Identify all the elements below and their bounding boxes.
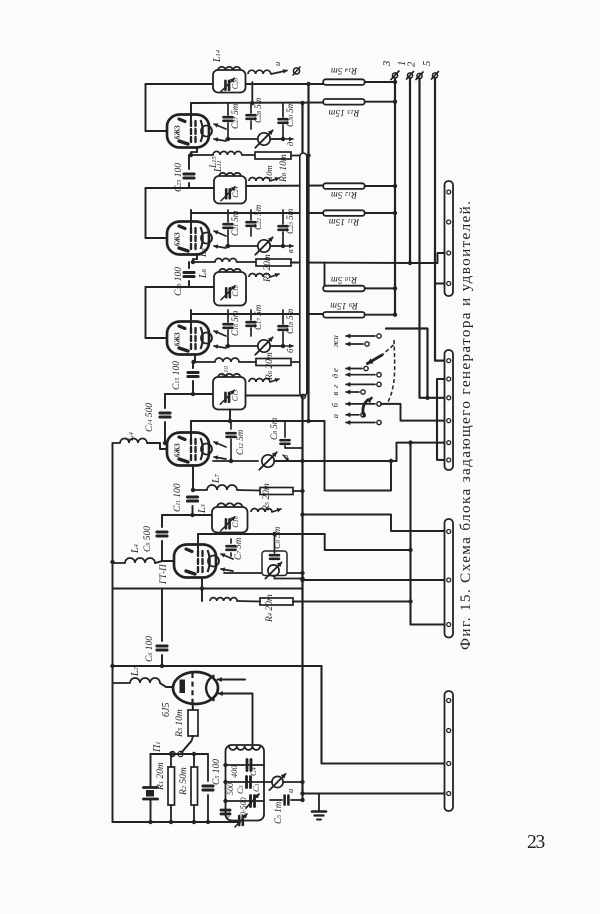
switch contact е bbox=[330, 366, 368, 372]
tube V4 bbox=[167, 433, 212, 466]
label L15 bbox=[209, 155, 219, 169]
svg-text:L10: L10 bbox=[221, 365, 231, 379]
switch contact д bbox=[330, 373, 381, 379]
wire coupling arrow stage4 bbox=[270, 378, 279, 382]
wire grid tank feed V1 bbox=[146, 83, 214, 85]
node и VFO bbox=[285, 789, 295, 793]
tube V6 6J5 bbox=[173, 672, 218, 704]
wire grid lead V1 bbox=[146, 130, 168, 132]
wire coupling arrow stage3 bbox=[270, 273, 279, 277]
label capC V2 bbox=[285, 208, 295, 234]
resistor R5 20т bbox=[237, 488, 305, 495]
label R9 bbox=[330, 300, 359, 310]
svg-text:ж: ж bbox=[330, 340, 340, 348]
bus terminal1 bbox=[409, 78, 411, 263]
bus A vertical x302 bbox=[301, 103, 303, 793]
wire output stage1 bbox=[271, 70, 287, 75]
wire top-cap feed y213 V2 bbox=[191, 212, 325, 214]
label C2 bbox=[222, 809, 232, 818]
wire L4 to rail bbox=[113, 442, 121, 444]
label capB V3 bbox=[253, 304, 263, 330]
svg-text:С14 500: С14 500 bbox=[145, 403, 155, 432]
wire feed y534 V5 bbox=[198, 532, 325, 536]
terminal 3 bbox=[382, 61, 399, 84]
label П1 bbox=[152, 742, 163, 753]
svg-text:R9 15т: R9 15т bbox=[330, 300, 359, 310]
capacitor C9 500 bbox=[157, 515, 167, 561]
svg-text:С5 100: С5 100 bbox=[212, 759, 222, 785]
svg-text:б: б bbox=[285, 348, 295, 353]
wire arrows row V5 bbox=[224, 572, 262, 574]
label capA V2 bbox=[230, 210, 240, 236]
label capC V1 bbox=[285, 101, 295, 127]
wire tank bottom stub stage4 bbox=[228, 410, 232, 424]
svg-text:10т: 10т bbox=[264, 165, 274, 180]
wire feed y421 V4 bbox=[191, 419, 325, 423]
svg-text:Фиг. 15. Схема блока задающего: Фиг. 15. Схема блока задающего генератор… bbox=[457, 200, 474, 650]
label R8 10т bbox=[264, 154, 289, 183]
label C6 100 bbox=[145, 636, 155, 662]
label C7 5т bbox=[233, 537, 243, 560]
wire anode arrows V1 bbox=[214, 124, 226, 142]
wire grid-return rail stage2 bbox=[145, 188, 147, 238]
wire plate feed y186 stage2 bbox=[246, 185, 325, 188]
inductor coupling coil stage3 bbox=[249, 274, 270, 278]
svg-text:R13 15т: R13 15т bbox=[328, 107, 360, 117]
label R5 20т bbox=[262, 483, 272, 512]
tank L6 C13 bbox=[213, 374, 246, 410]
wire cathode V1 bbox=[189, 147, 197, 157]
node letter a V4 bbox=[280, 455, 290, 461]
page number 23 bbox=[527, 832, 545, 853]
ground bbox=[312, 794, 326, 820]
svg-text:С16 5т: С16 5т bbox=[230, 310, 240, 336]
label 400 bbox=[229, 765, 239, 779]
label L2 bbox=[130, 666, 141, 677]
wire strip3 feed c bbox=[408, 443, 444, 625]
wire grid-return rail stage3 bbox=[145, 287, 147, 338]
terminal 2 bbox=[407, 61, 424, 80]
svg-text:С20 100: С20 100 bbox=[174, 267, 184, 296]
svg-text:R3 10т: R3 10т bbox=[175, 709, 185, 738]
caption Фиг. 15 bbox=[457, 200, 474, 650]
svg-text:400: 400 bbox=[229, 765, 239, 779]
svg-text:6ЖЗ: 6ЖЗ bbox=[175, 125, 182, 139]
wire coupling node stage2-3 bbox=[146, 286, 215, 288]
terminal strip 4 bbox=[445, 691, 454, 811]
wire coupling node stage3-4 bbox=[165, 393, 214, 395]
tube V3 bbox=[167, 322, 212, 355]
wire feed drop V4 bbox=[325, 421, 394, 491]
inductor L15 bbox=[213, 151, 242, 155]
svg-text:5: 5 bbox=[422, 61, 433, 66]
wire bus A bottom bbox=[302, 782, 304, 800]
svg-text:С9 5т: С9 5т bbox=[272, 526, 282, 549]
wire grid-return rail stage1 bbox=[145, 84, 147, 131]
wire coupling arrow stage2 bbox=[270, 177, 279, 181]
wire cathode bus y588 bbox=[113, 588, 303, 590]
capacitor C15 100 coupling bbox=[188, 362, 198, 396]
bus B vertical x308 bbox=[307, 84, 309, 421]
wire R3 to switch bbox=[192, 736, 194, 741]
svg-text:R8 10т: R8 10т bbox=[279, 154, 289, 183]
wire cathode V2 bbox=[191, 254, 197, 264]
svg-text:С30 5т: С30 5т bbox=[285, 101, 295, 127]
wire grid cap stub V3 bbox=[190, 310, 192, 331]
switch П1 bbox=[170, 742, 191, 757]
wire VFO rail1 bbox=[223, 763, 264, 767]
meter VFO bbox=[264, 774, 305, 790]
label L4 stage4 bbox=[125, 431, 136, 442]
capacitor C5 1т bbox=[270, 796, 305, 805]
wire drop x321 to strip4 bbox=[322, 666, 446, 764]
bus terminal2 bbox=[420, 79, 445, 398]
wire strip4 feed b bbox=[322, 763, 445, 765]
label R10 bbox=[331, 274, 358, 284]
switch arm bbox=[363, 340, 395, 417]
resistor R9 bbox=[323, 312, 397, 318]
capacitor C23 5т bbox=[279, 210, 288, 246]
wire strip2 feed c bbox=[397, 440, 445, 461]
bus terminal5 bbox=[434, 78, 436, 284]
wire cathode V3 bbox=[191, 355, 215, 364]
resistor R10 bbox=[323, 286, 397, 292]
label capC V3 bbox=[285, 308, 295, 334]
terminal strip 2 bbox=[445, 350, 454, 470]
label capB V1 bbox=[253, 97, 263, 123]
wire cathode V5 bbox=[200, 578, 204, 601]
svg-text:R2 50т: R2 50т bbox=[179, 767, 189, 796]
wire long y666 bbox=[113, 665, 322, 667]
svg-text:С9 500: С9 500 bbox=[143, 526, 153, 552]
wire strip1 feed b bbox=[435, 283, 445, 285]
svg-text:б: б bbox=[330, 402, 340, 407]
capacitor C18 5т bbox=[279, 310, 288, 346]
label R13 bbox=[328, 107, 360, 117]
wire osc top rail bbox=[151, 752, 209, 756]
svg-text:С17 5т: С17 5т bbox=[253, 304, 263, 330]
wire row V4 bbox=[193, 489, 208, 491]
svg-text:R1 20т: R1 20т bbox=[156, 762, 166, 791]
inductor L1 bbox=[229, 746, 260, 750]
wire L4b to grid V5 bbox=[155, 561, 174, 563]
resistor R4 20т bbox=[237, 598, 411, 605]
wire C9box out bbox=[275, 571, 305, 581]
label C5 100 bbox=[212, 759, 222, 785]
capacitor C28 5т bbox=[247, 103, 256, 129]
wire row V1 bbox=[191, 154, 213, 156]
tank L3 C10 bbox=[212, 503, 248, 532]
svg-text:С12 5т: С12 5т bbox=[235, 429, 245, 455]
wire common grid rail bbox=[110, 443, 114, 822]
wire strip3 feed b bbox=[300, 578, 444, 582]
label C14 500 bbox=[145, 403, 155, 432]
tube V2 bbox=[167, 222, 212, 255]
label 500 bbox=[226, 783, 235, 795]
svg-text:6ЖЗ: 6ЖЗ bbox=[175, 332, 182, 346]
svg-text:R12 5т: R12 5т bbox=[331, 189, 358, 199]
capacitor C11 100 coupling bbox=[188, 465, 198, 517]
inductor L2 bbox=[130, 678, 160, 683]
terminal 5 bbox=[422, 61, 439, 79]
svg-text:и: и bbox=[330, 335, 340, 339]
tank L14 C26 bbox=[213, 67, 246, 93]
inductor choke stage5 row bbox=[210, 598, 237, 601]
capacitor C8 5т bbox=[281, 421, 303, 448]
wire bus5 lower bbox=[435, 284, 445, 361]
label L10 bbox=[221, 365, 231, 379]
label capA V3 bbox=[230, 310, 240, 336]
wire anode lead V6 bbox=[219, 692, 253, 746]
wire coupling node stage1-2 bbox=[146, 187, 215, 189]
svg-text:а: а bbox=[330, 414, 340, 418]
svg-text:С21 5т: С21 5т bbox=[230, 210, 240, 236]
node и output stage1 bbox=[272, 62, 282, 66]
switch wire contact b bbox=[381, 404, 445, 421]
wire plate feed y84 stage1 bbox=[246, 82, 324, 86]
wire coupling node stage4-5 bbox=[193, 514, 213, 516]
capacitor C12 5т bbox=[227, 421, 236, 463]
svg-text:500: 500 bbox=[226, 783, 235, 795]
label C4 bbox=[248, 767, 258, 776]
capacitor C6 100 bbox=[157, 589, 167, 669]
label R14 bbox=[331, 65, 358, 75]
capacitor C14 500 bbox=[160, 394, 170, 445]
resistor R7 20т bbox=[237, 259, 291, 266]
svg-text:С7 5т: С7 5т bbox=[233, 537, 243, 560]
label L9 bbox=[199, 248, 209, 258]
tube V1 bbox=[167, 115, 212, 148]
shielded line on bus A bbox=[300, 153, 307, 399]
meter V2 bbox=[226, 237, 285, 254]
svg-text:3: 3 bbox=[382, 61, 393, 67]
inductor L6 label bbox=[213, 375, 224, 386]
inductor L3 label bbox=[197, 503, 208, 514]
capacitor C22 5т bbox=[247, 210, 256, 236]
wire coupling drop stage1 bbox=[250, 82, 254, 105]
capacitor C25 100 coupling bbox=[184, 155, 194, 188]
tank box VFO bbox=[226, 745, 265, 821]
inductor output coupling coil stage1 bbox=[248, 70, 271, 74]
wire anode arrows V2 bbox=[214, 231, 226, 249]
label C25 100 bbox=[174, 163, 184, 192]
wire anode arrows V4 bbox=[214, 442, 226, 460]
inductor L10 bbox=[215, 358, 239, 362]
wire strip4 feed c bbox=[300, 791, 444, 795]
switch contact б bbox=[330, 402, 381, 408]
switch contact а bbox=[330, 413, 365, 419]
wire tank4 to shield bbox=[246, 394, 300, 396]
label R11 bbox=[329, 216, 361, 226]
label capA V1 bbox=[230, 103, 240, 129]
terminal strip 3 bbox=[445, 519, 454, 638]
terminal feedthrough stage1 bbox=[293, 67, 300, 75]
svg-text:R14 5т: R14 5т bbox=[331, 65, 358, 75]
svg-text:2: 2 bbox=[407, 61, 418, 67]
label capB V2 bbox=[253, 204, 263, 230]
wire top-cap feed y103 V1 bbox=[191, 101, 325, 105]
switch contact a2 bbox=[346, 420, 381, 424]
bus terminal3 bbox=[394, 84, 396, 315]
wire VFO rail2 bbox=[223, 780, 264, 784]
svg-text:23: 23 bbox=[527, 832, 545, 853]
resistor R8 10т bbox=[242, 152, 311, 159]
label L7 bbox=[211, 473, 222, 484]
label R3 10т bbox=[175, 709, 185, 738]
svg-text:R7 20т: R7 20т bbox=[263, 254, 273, 283]
wire grid cap stub V1 bbox=[190, 103, 192, 124]
node letter V3 bbox=[272, 344, 295, 353]
variable capacitor 0-500 bbox=[246, 794, 259, 808]
capacitor C9 5т box bbox=[262, 534, 287, 576]
tank L11 C24 bbox=[214, 173, 246, 204]
svg-text:С11 100: С11 100 bbox=[173, 483, 183, 512]
inductor coupling coil stage5 bbox=[251, 509, 272, 512]
svg-text:С18 5т: С18 5т bbox=[285, 308, 295, 334]
label C11 100 bbox=[173, 483, 183, 512]
wire L2 to grid V6 bbox=[160, 683, 173, 687]
svg-text:и: и bbox=[285, 789, 295, 793]
label C12 5т bbox=[235, 429, 245, 455]
resistor R6 20т bbox=[256, 359, 305, 366]
inductor L11 label bbox=[213, 160, 224, 173]
capacitor C7 5т bbox=[227, 539, 236, 556]
node letter V1 bbox=[272, 137, 295, 146]
svg-text:6ЖЗ: 6ЖЗ bbox=[175, 232, 182, 246]
wire y328 to x427 bbox=[386, 329, 430, 400]
wire grid lead V2 bbox=[146, 237, 168, 239]
svg-text:R11 15т: R11 15т bbox=[329, 216, 361, 226]
label C15 100 bbox=[172, 361, 182, 390]
label C1 bbox=[251, 783, 261, 792]
inductor L4 stage5 bbox=[125, 558, 155, 563]
inductor L7 bbox=[207, 485, 237, 490]
svg-text:д: д bbox=[285, 141, 295, 146]
trimmer VFO bottom bbox=[235, 814, 247, 827]
crystal quartz bbox=[144, 754, 158, 822]
svg-text:С27 5т: С27 5т bbox=[230, 103, 240, 129]
capacitor C16 5т bbox=[224, 310, 233, 346]
svg-text:д: д bbox=[330, 373, 340, 378]
wire feed drop x324 bbox=[325, 534, 411, 550]
wire strip3 feed a bbox=[300, 512, 444, 531]
inductor L8 label bbox=[198, 268, 209, 279]
label ГТ-П bbox=[158, 564, 168, 585]
inductor L9 bbox=[215, 258, 237, 262]
svg-text:R10 5т: R10 5т bbox=[331, 274, 358, 284]
svg-text:L9: L9 bbox=[199, 248, 209, 258]
wire L4b to rail bbox=[113, 562, 126, 564]
capacitor C20 100 coupling bbox=[184, 262, 194, 287]
wire osc bottom rail bbox=[113, 820, 241, 824]
svg-text:6Ј5: 6Ј5 bbox=[161, 703, 172, 717]
capacitor C17 5т bbox=[247, 310, 256, 336]
label R1 20т bbox=[156, 762, 166, 791]
wire anode arrows V5 bbox=[221, 554, 233, 572]
resistor R1 20т bbox=[168, 754, 175, 822]
wire node515 to C9 bbox=[162, 514, 193, 516]
switch contact в bbox=[330, 390, 365, 396]
terminal strip 1 bbox=[445, 181, 454, 296]
svg-text:С23 5т: С23 5т bbox=[285, 208, 295, 234]
wire grid lead V6 arrow bbox=[218, 678, 246, 682]
svg-text:в: в bbox=[330, 392, 340, 396]
capacitor C4 400 bbox=[247, 760, 251, 771]
wire L4 to grid V4 bbox=[147, 443, 167, 449]
label R12 bbox=[331, 189, 358, 199]
capacitor C21 5т bbox=[224, 210, 233, 246]
resistor R13 bbox=[323, 99, 397, 105]
label R2 50т bbox=[179, 767, 189, 796]
terminal 1 bbox=[397, 61, 414, 79]
wire grid cap stub V4 bbox=[190, 421, 192, 442]
label C20 100 bbox=[174, 267, 184, 296]
svg-text:ГТ-П: ГТ-П bbox=[158, 564, 168, 585]
tube V5 bbox=[174, 545, 219, 578]
wire L2 left bbox=[113, 682, 131, 684]
svg-text:R6 20т: R6 20т bbox=[265, 352, 275, 381]
wire anode arrows V3 bbox=[214, 331, 226, 349]
wire L10 to R6 bbox=[239, 361, 256, 363]
svg-text:С22 5т: С22 5т bbox=[253, 204, 263, 230]
wire row V2 bbox=[193, 261, 215, 263]
label C3 bbox=[235, 785, 245, 794]
svg-text:С15 100: С15 100 bbox=[172, 361, 182, 390]
label 0-500 bbox=[239, 797, 248, 816]
wire U-link x437 bbox=[437, 379, 445, 460]
node letter V2 bbox=[272, 244, 295, 253]
inductor coupling coil stage4 bbox=[249, 379, 270, 383]
svg-text:е: е bbox=[330, 368, 340, 372]
wire grid lead V3 bbox=[146, 337, 168, 339]
wire strip1 feed a bbox=[410, 253, 445, 263]
svg-text:R4 20т: R4 20т bbox=[265, 594, 275, 623]
wire VFO rail3 bbox=[223, 799, 264, 803]
resistor R14 bbox=[323, 79, 397, 85]
tank L8 C19 bbox=[214, 269, 246, 306]
switch contact и bbox=[330, 334, 381, 340]
switch contact г bbox=[330, 382, 381, 388]
label R7 20т bbox=[263, 254, 273, 283]
meter V3 bbox=[226, 337, 285, 354]
wire top-cap feed y314 V3 bbox=[191, 313, 325, 315]
resistor R2 50т bbox=[191, 754, 198, 822]
label R4 20т bbox=[265, 594, 275, 623]
wire y262 long bbox=[291, 260, 412, 265]
svg-text:6ЖЗ: 6ЖЗ bbox=[175, 443, 182, 457]
meter V4 bbox=[213, 452, 397, 469]
label R6 20т bbox=[265, 352, 275, 381]
meter V1 bbox=[226, 130, 285, 147]
switch contact ж bbox=[330, 340, 369, 348]
capacitor C2 bbox=[221, 810, 230, 814]
svg-text:в: в bbox=[285, 249, 295, 253]
label C9 5т bbox=[272, 526, 282, 549]
svg-text:и: и bbox=[272, 62, 282, 66]
svg-text:С28 5т: С28 5т bbox=[253, 97, 263, 123]
capacitor C1 bbox=[247, 777, 251, 788]
svg-text:С5 1т: С5 1т bbox=[273, 801, 283, 824]
inductor coupling coil stage2 bbox=[249, 178, 270, 182]
resistor R11 bbox=[323, 210, 397, 216]
wire grid cap stub V2 bbox=[190, 210, 192, 231]
capacitor C30 5т bbox=[279, 103, 288, 139]
wire y262 corner to R10 bbox=[324, 263, 326, 289]
svg-text:R5 20т: R5 20т bbox=[262, 483, 272, 512]
svg-text:L15: L15 bbox=[209, 155, 219, 169]
svg-text:С6 100: С6 100 bbox=[145, 636, 155, 662]
capacitor C27 5т bbox=[224, 103, 233, 139]
